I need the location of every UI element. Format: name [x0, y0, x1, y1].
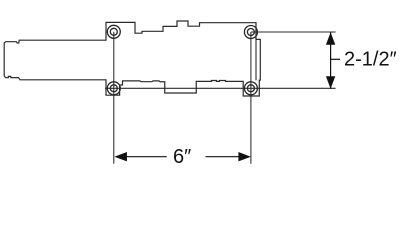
svg-text:2-1/2″: 2-1/2″	[344, 49, 397, 71]
leader to 2-1/2in label	[331, 58, 340, 60]
plate right edge interior line	[255, 39, 257, 80]
arrow 2-1/2in top	[326, 32, 335, 45]
dimension line 2-1/2in vertical	[330, 32, 332, 88]
arrow 6in right	[238, 152, 251, 161]
svg-text:6″: 6″	[173, 146, 191, 168]
arrow 6in left	[114, 152, 127, 161]
arrow 2-1/2in bottom	[326, 76, 335, 89]
centerline horizontal bottom (2-1/2in extension)	[105, 87, 336, 89]
screw bottom-left	[107, 82, 120, 95]
dimension line 6in left segment	[121, 156, 167, 158]
centerline vertical left (6in extension)	[113, 32, 115, 164]
centerline vertical right (6in extension)	[250, 32, 252, 164]
dimension line 6in right segment	[206, 156, 245, 158]
centerline horizontal top (2-1/2in extension)	[251, 31, 336, 33]
screw bottom-right	[244, 82, 257, 95]
body outline	[4, 21, 260, 96]
screw top-right	[244, 26, 257, 39]
screw top-left	[107, 25, 120, 38]
